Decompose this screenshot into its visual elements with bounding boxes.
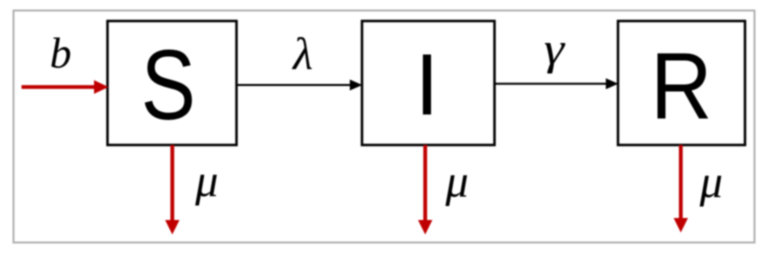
svg-text:b: b	[50, 29, 72, 77]
svg-text:μ: μ	[444, 156, 468, 207]
svg-text:μ: μ	[699, 156, 723, 207]
arrow mu under R	[674, 145, 688, 233]
arrow gamma (I to R)	[495, 78, 619, 89]
svg-text:R: R	[650, 33, 712, 139]
arrow b (birth into S)	[22, 80, 109, 94]
svg-text:μ: μ	[194, 155, 218, 206]
svg-text:I: I	[415, 37, 439, 134]
arrow mu under I	[418, 145, 432, 235]
box R	[618, 21, 745, 145]
box I	[362, 21, 495, 145]
arrow lambda (S to I)	[237, 80, 363, 91]
svg-text:λ: λ	[291, 28, 313, 79]
box S	[108, 21, 237, 145]
svg-text:γ: γ	[544, 22, 566, 74]
svg-text:S: S	[141, 31, 196, 141]
arrow mu under S	[165, 145, 179, 235]
